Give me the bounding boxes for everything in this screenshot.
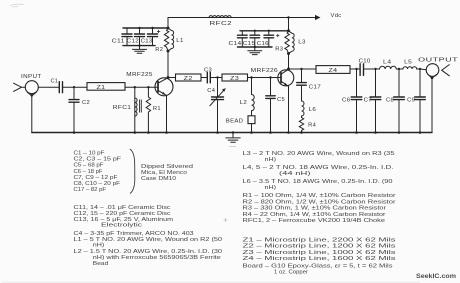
connector J-IN circle: [25, 81, 38, 94]
transistor Q1 MRF225: [126, 72, 173, 96]
svg-text:L4: L4: [383, 59, 392, 65]
svg-text:C12: C12: [127, 39, 140, 45]
svg-text:L6 – 3.5 T NO. 18 AWG Wire, 0.: L6 – 3.5 T NO. 18 AWG Wire, 0.25-In. I.D…: [243, 179, 393, 185]
svg-text:RFC1: RFC1: [113, 105, 132, 111]
svg-text:1 oz. Copper: 1 oz. Copper: [274, 270, 308, 276]
resistor R1: [146, 87, 161, 132]
svg-text:R3 – 330 Ohm, 1 W, ±10% Carbon: R3 – 330 Ohm, 1 W, ±10% Carbon Resistor: [243, 206, 387, 212]
svg-text:C7, C9 – 12 pF: C7, C9 – 12 pF: [74, 175, 119, 181]
inductor L1 (wound on R2): [168, 28, 184, 51]
connector J-OUT circle: [426, 64, 439, 77]
svg-text:C5: C5: [277, 97, 285, 103]
artifact mark: [224, 218, 228, 222]
svg-text:C11: C11: [112, 39, 125, 45]
svg-text:C12, 15 – 220 pF Ceramic Disc: C12, 15 – 220 pF Ceramic Disc: [74, 211, 171, 217]
svg-text:C6 – 18 pF: C6 – 18 pF: [74, 169, 103, 175]
capacitor C11: [112, 28, 132, 46]
svg-text:nH) with Ferroxcube 5659065/3B: nH) with Ferroxcube 5659065/3B Ferrite: [93, 255, 221, 261]
svg-text:L2: L2: [240, 100, 248, 106]
node junction at C6: [355, 68, 357, 70]
wire: L4 to L5: [396, 68, 403, 70]
wire: fork to input connector: [22, 86, 26, 88]
capacitor C10: [359, 59, 371, 76]
svg-text:Z1 – Microstrip Line, 2200 X 6: Z1 – Microstrip Line, 2200 X 62 Mils: [243, 238, 396, 244]
capacitor C14: [229, 31, 248, 47]
junction dots right decoupling: [254, 30, 256, 32]
wire: right decoupling top bar: [240, 30, 289, 32]
wire: rail drop to R2/L1 top: [167, 18, 169, 29]
svg-text:C1: C1: [51, 78, 59, 84]
wire: Z4 to C10: [350, 68, 360, 70]
svg-text:Electrolytic: Electrolytic: [101, 223, 142, 229]
svg-text:Z4: Z4: [329, 68, 338, 74]
wire: Vdc top rail left segment: [168, 17, 209, 19]
capacitor C12: [127, 28, 145, 46]
capacitor C7: [364, 69, 381, 133]
microstrip Z3: [222, 74, 248, 82]
wire: Vdc top rail right segment with arrow: [231, 15, 321, 20]
wire: ground return rail: [32, 132, 432, 134]
inductor L6: [302, 101, 317, 118]
svg-text:Z3: Z3: [230, 76, 239, 82]
resistor R2: [155, 28, 169, 53]
svg-text:C4 – 3-35 pF Trimmer, ARCO NO.: C4 – 3-35 pF Trimmer, ARCO NO. 403: [74, 231, 194, 237]
inductor L4: [380, 59, 397, 69]
svg-text:Bead: Bead: [93, 261, 109, 267]
svg-text:R3: R3: [275, 47, 283, 53]
wire: left decoupling top bar: [123, 27, 168, 29]
svg-text:L5: L5: [404, 60, 412, 66]
microstrip Z4: [316, 66, 350, 74]
svg-text:C1 – 10 pF: C1 – 10 pF: [74, 151, 105, 157]
wire: L5 to output: [417, 68, 427, 71]
output shield V to ground: [428, 75, 436, 80]
value label Z1-Z4, board list: [243, 238, 396, 276]
wire: C1 to Z1: [63, 86, 88, 88]
node junction at L2: [250, 76, 252, 78]
scan edge artifact bottom: [2, 281, 420, 283]
svg-text:Z2 – Microstrip Line, 1200 X 6: Z2 – Microstrip Line, 1200 X 62 Mils: [243, 244, 396, 250]
wire: Z2 to C3: [201, 77, 207, 79]
svg-text:RFC2: RFC2: [210, 21, 233, 27]
svg-text:Z3 – Microstrip Line, 1000 X 6: Z3 – Microstrip Line, 1000 X 62 Mils: [243, 250, 396, 256]
value label C11-C16, C4, L1, L2 list: [74, 205, 223, 267]
wire: bead to ground rail: [251, 124, 253, 133]
wire: C10 to L4: [364, 68, 380, 70]
wire: R2/L1 bottom to collector junction: [167, 51, 169, 78]
wire: left decoupling bottom bar: [123, 45, 155, 47]
svg-text:nH): nH): [93, 243, 105, 249]
svg-text:SeekIC.com: SeekIC.com: [416, 273, 456, 280]
capacitor C6: [342, 69, 362, 133]
inductor L2: [240, 78, 255, 116]
value label L3-L6, R1-R4, RFC list: [243, 151, 396, 224]
svg-text:C17 – 82 pF: C17 – 82 pF: [74, 187, 107, 193]
svg-text:Z1: Z1: [97, 85, 106, 91]
ground (right decoupling): [248, 47, 262, 55]
node junction at C8: [398, 68, 400, 70]
svg-text:C8, C10 – 20 pF: C8, C10 – 20 pF: [74, 181, 121, 187]
ground (rail center): [226, 133, 240, 143]
connector shield V to ground: [27, 92, 36, 96]
choke RFC1: [113, 87, 142, 132]
node junction at R1: [147, 86, 149, 88]
svg-text:C10: C10: [359, 59, 371, 65]
wire: input to C1: [38, 86, 59, 88]
microstrip Z1: [87, 83, 125, 91]
svg-text:MRF226: MRF226: [251, 68, 279, 74]
svg-text:C2: C2: [82, 100, 90, 106]
connector: OUTPUT fork: [442, 65, 450, 76]
note: dipped silvered mica: [141, 164, 193, 182]
svg-text:L3 – 2 T NO. 20 AWG Wire, Woun: L3 – 2 T NO. 20 AWG Wire, Wound on R3 (3…: [243, 151, 395, 157]
svg-text:BEAD: BEAD: [226, 118, 244, 124]
junction on Vdc rail above R3/L3: [287, 16, 289, 18]
svg-text:L6: L6: [309, 107, 317, 113]
brace for dipped mica group: [130, 149, 135, 194]
svg-text:Board – G10 Epoxy-Glass, εr =: Board – G10 Epoxy-Glass, εr = 5, t = 62 …: [243, 263, 393, 269]
resistor R3: [275, 31, 289, 54]
node junction at C4: [216, 76, 218, 78]
artifact dash: [229, 146, 236, 148]
svg-text:C17: C17: [309, 84, 322, 90]
ground (left decoupling): [133, 46, 147, 54]
svg-text:MRF225: MRF225: [126, 72, 153, 78]
node junction at C9: [419, 68, 421, 70]
node: collector junction Q1: [167, 76, 170, 79]
svg-text:Z2: Z2: [184, 76, 193, 82]
svg-text:C9: C9: [407, 97, 415, 103]
node: collector junction Q2: [287, 68, 290, 71]
value label C1 group list: [74, 151, 122, 194]
capacitor C15: [243, 31, 260, 47]
capacitor C3: [204, 67, 212, 83]
node: R3/L3 bottom junction: [287, 52, 290, 55]
wire: input shield drop to ground rail: [31, 96, 33, 133]
svg-text:C2, C3 – 15 pF: C2, C3 – 15 pF: [74, 157, 122, 163]
svg-text:nH): nH): [265, 157, 277, 163]
capacitor C1: [51, 78, 63, 92]
svg-text:C6: C6: [342, 97, 351, 103]
svg-text:C13: C13: [141, 39, 153, 45]
capacitor C8: [386, 69, 404, 133]
svg-text:nH): nH): [265, 185, 277, 191]
svg-text:L3: L3: [298, 40, 306, 46]
ferrite bead on L2: [226, 116, 255, 125]
wire: rail drop to R3/L3 top: [288, 18, 290, 31]
svg-text:Vdc: Vdc: [331, 13, 342, 19]
wire: MRF225 emitter to ground rail: [166, 96, 168, 133]
svg-text:R1 – 100 Ohm, 1/4 W, ±10% Carb: R1 – 100 Ohm, 1/4 W, ±10% Carbon Resisto…: [243, 193, 396, 199]
svg-text:C5 – 68 pF: C5 – 68 pF: [74, 163, 104, 169]
wire: C3 to Z3: [210, 77, 222, 79]
svg-text:C11, 14 – .01 μF Ceramic Disc: C11, 14 – .01 μF Ceramic Disc: [74, 205, 171, 211]
choke RFC2: [209, 16, 232, 28]
node junction at C5: [269, 76, 271, 78]
svg-text:R1: R1: [153, 106, 161, 112]
capacitor C5: [266, 78, 285, 133]
wire: right decoupling bottom bar: [238, 46, 273, 48]
capacitor C17: [297, 69, 321, 101]
inductor L5: [403, 60, 417, 69]
svg-text:OUTPUT: OUTPUT: [418, 58, 459, 64]
svg-text:L1: L1: [176, 38, 184, 44]
svg-text:C14: C14: [229, 41, 242, 47]
connector: INPUT fork: [14, 83, 22, 91]
svg-text:INPUT: INPUT: [21, 74, 42, 80]
inductor L3 (wound on R3): [289, 31, 306, 54]
svg-text:C4: C4: [207, 88, 215, 94]
microstrip Z2: [176, 74, 202, 82]
junction dots on ground rail: [73, 131, 422, 134]
svg-text:C15: C15: [243, 41, 256, 47]
wire: Z1 to MRF225 base: [125, 86, 158, 88]
svg-text:R2 – 820 Ohm, 1/2 W, ±10% Carb: R2 – 820 Ohm, 1/2 W, ±10% Carbon Resisto…: [243, 199, 396, 205]
svg-text:R4: R4: [308, 123, 316, 129]
junction dots left decoupling: [138, 27, 140, 29]
wire: output shield drop to ground rail: [431, 78, 433, 132]
svg-text:R2: R2: [155, 47, 163, 53]
svg-text:Case DM10: Case DM10: [141, 176, 176, 182]
svg-text:R4 – 22 Ohm, 1/4 W, ±10% Carbo: R4 – 22 Ohm, 1/4 W, ±10% Carbon Resistor: [243, 212, 386, 218]
node junction at C2: [73, 86, 75, 88]
capacitor C2: [69, 87, 90, 132]
transistor Q2 MRF226: [251, 68, 294, 86]
svg-text:C16: C16: [257, 41, 269, 47]
wire: MRF226 emitter to ground rail: [288, 86, 290, 132]
wire: Z3 to MRF226 base: [248, 77, 282, 79]
capacitor C16 (electrolytic, + mark): [257, 31, 280, 47]
svg-text:C7: C7: [364, 97, 373, 103]
node junction at C7: [374, 68, 376, 70]
node: R2/L1 bottom junction: [167, 50, 170, 53]
node junction at C17: [300, 68, 302, 70]
wire: collector junction to Z2: [168, 77, 176, 79]
wire: Q2 collector to Z4: [289, 68, 317, 70]
capacitor C4 (trimmer): [207, 78, 226, 133]
node junction at RFC1: [134, 86, 136, 88]
smudge artifact top-left: [10, 4, 24, 7]
svg-text:L4, 5 – 2 T NO. 18 AWG Wire, 0: L4, 5 – 2 T NO. 18 AWG Wire, 0.25-In. I.…: [243, 165, 395, 171]
capacitor C13 (electrolytic, + mark): [141, 28, 161, 46]
svg-text:C3: C3: [204, 67, 212, 73]
capacitor C9: [407, 69, 425, 133]
wire: R3/L3 bottom to collector junction: [288, 54, 290, 70]
svg-text:RFC1, 2 – Ferroxcube VK200 19/: RFC1, 2 – Ferroxcube VK200 19/4B Choke: [243, 218, 386, 224]
svg-text:(44 nH): (44 nH): [279, 171, 311, 177]
svg-text:Z4 – Microstrip Line, 1600 X 6: Z4 – Microstrip Line, 1600 X 62 Mils: [243, 256, 396, 262]
svg-text:C8: C8: [386, 97, 394, 103]
resistor R4: [299, 118, 316, 133]
